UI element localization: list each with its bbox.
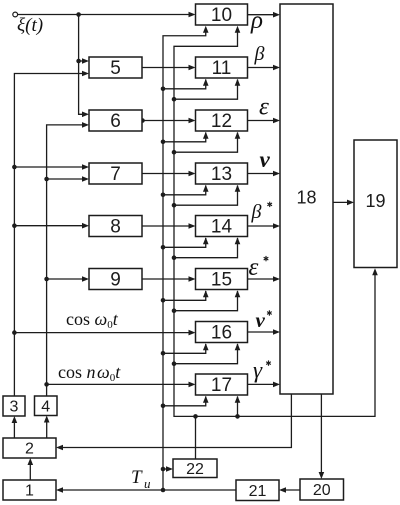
- svg-text:cos n ω0t: cos n ω0t: [58, 362, 121, 384]
- bus2 vertical wire: [174, 29, 375, 417]
- wire block 9 to block 15: [142, 278, 192, 280]
- block 22: [173, 459, 217, 478]
- node bus2 feed block 11: [172, 97, 177, 102]
- wire bus2 into block 13 bottom: [174, 186, 238, 206]
- node bus1 feed block 15: [161, 298, 166, 303]
- svg-text:14: 14: [211, 217, 233, 238]
- svg-text:β: β: [251, 201, 262, 223]
- svg-text:11: 11: [212, 58, 232, 79]
- wire bus1 into block 17 bottom: [163, 397, 206, 406]
- bus1 vertical wire: [163, 29, 206, 490]
- block 5: [89, 57, 142, 79]
- svg-text:19: 19: [365, 191, 385, 211]
- node bus2 feed block 12: [172, 150, 177, 155]
- wire bus2 into block 15 bottom: [174, 291, 238, 311]
- node bus2 feed block 15: [172, 308, 177, 313]
- wire branch into block 7 second input: [47, 178, 86, 180]
- wire branch into block 7 first input: [14, 166, 85, 168]
- svg-text:10: 10: [211, 5, 232, 26]
- wire block 11 output to block 18: [248, 67, 277, 69]
- node bus1 feed block 16: [161, 351, 166, 356]
- wire block 2 to block 3: [13, 420, 15, 439]
- svg-text:и: и: [144, 476, 151, 491]
- block 13: [196, 163, 248, 185]
- svg-text:21: 21: [249, 483, 267, 500]
- node on xi(t) wire: [76, 12, 81, 17]
- svg-text:20: 20: [313, 482, 331, 499]
- wire bus1 into block 22: [163, 468, 170, 470]
- node block22 output joins bus2 line: [193, 414, 198, 419]
- svg-text:8: 8: [110, 217, 121, 238]
- node xi branch to block 5: [76, 59, 81, 64]
- node block4-line cos nw0t: [44, 382, 49, 387]
- wire bus1 into block 16 bottom: [163, 344, 206, 353]
- block 8: [89, 216, 142, 238]
- node block3-line to block 8: [12, 223, 17, 228]
- svg-text:5: 5: [110, 58, 121, 79]
- block 12: [196, 110, 248, 132]
- block 9: [89, 269, 142, 291]
- node bus2 feed block 13: [172, 203, 177, 208]
- block 2: [3, 438, 56, 458]
- node block4-line to block 7: [44, 177, 49, 182]
- node bus1 feed block 14: [161, 245, 166, 250]
- wire block 7 to block 13: [142, 173, 192, 175]
- wire block 18 to block 19: [333, 201, 351, 203]
- wire block 1 to block 2: [29, 462, 31, 481]
- svg-text:ν: ν: [260, 147, 271, 172]
- svg-text:16: 16: [211, 323, 232, 344]
- wire branch into block 5 first input: [79, 60, 86, 62]
- block 15: [196, 269, 248, 291]
- wire block 14 output to block 18: [248, 225, 277, 227]
- node block 6 output: [140, 118, 145, 123]
- block 11: [196, 57, 248, 79]
- svg-text:ξ(t): ξ(t): [17, 15, 43, 36]
- svg-text:ρ: ρ: [250, 7, 263, 34]
- block 6: [89, 110, 142, 132]
- wire block 18 bottom to block 20: [320, 394, 322, 476]
- wire block 18 bottom to block 2: [60, 394, 292, 448]
- block 3: [3, 396, 25, 416]
- node bus1 feed block 11: [161, 87, 166, 92]
- svg-text:6: 6: [110, 111, 121, 132]
- wire cos w0t into block 16: [14, 332, 192, 334]
- svg-text:2: 2: [25, 441, 34, 458]
- wire block 10 output to block 18: [248, 14, 277, 16]
- wire block 20 to block 21: [283, 489, 301, 491]
- node bus1 feed block 17: [161, 404, 166, 409]
- wire block 2 to block 4: [46, 419, 48, 438]
- wire block 5 to block 11: [142, 67, 192, 69]
- node block3-line cos w0t: [12, 330, 17, 335]
- node bus2 feed block 14: [172, 255, 177, 260]
- block 1: [3, 480, 56, 500]
- wire block 21 to block 1 and bus1: [60, 489, 237, 491]
- wire block 13 output to block 18: [248, 173, 277, 175]
- wire bus2 into block 11 bottom: [174, 80, 238, 100]
- wire cos nw0t into block 17: [47, 383, 192, 385]
- svg-text:18: 18: [296, 188, 316, 208]
- node bus1 on block21 wire: [161, 488, 166, 493]
- wire up into block 17 bottom right: [237, 397, 239, 417]
- svg-text:γ: γ: [253, 358, 263, 383]
- input terminal circle: [13, 12, 18, 17]
- block 17: [196, 374, 248, 396]
- node bus1 feed block 13: [161, 193, 166, 198]
- wire block 12 output to block 18: [248, 120, 277, 122]
- svg-text:1: 1: [25, 483, 34, 500]
- wire bus1 into block 15 bottom: [163, 291, 206, 300]
- svg-text:4: 4: [41, 398, 50, 415]
- block 14: [196, 216, 248, 238]
- wire block 15 output to block 18: [248, 278, 277, 280]
- wire block 8 to block 14: [142, 225, 192, 227]
- svg-text:9: 9: [110, 270, 121, 291]
- svg-text:15: 15: [211, 270, 232, 291]
- block 4: [35, 396, 58, 416]
- wire bus1 into block 12 bottom: [163, 133, 206, 142]
- wire bus1 into block 13 bottom: [163, 186, 206, 195]
- wire xi(t) input to block 10: [18, 14, 193, 16]
- wire xi branch down to block 6 input: [79, 15, 86, 115]
- node bus2 line to block 17 bottom: [235, 414, 240, 419]
- svg-text:cos ω0t: cos ω0t: [66, 309, 119, 331]
- svg-text:12: 12: [211, 111, 232, 132]
- svg-text:ε: ε: [259, 93, 269, 120]
- vertical wire from block 4 up: [47, 125, 86, 396]
- wire block 22 output up: [195, 416, 197, 459]
- vertical wire from block 3 up: [14, 74, 85, 397]
- wire block 16 output to block 18: [248, 331, 277, 333]
- block 19: [354, 140, 397, 268]
- wire bus2 into block 16 bottom: [174, 344, 238, 364]
- wire bus1 into block 11 bottom: [163, 80, 206, 89]
- block 20: [300, 479, 344, 500]
- node block4-line to block 9: [44, 277, 49, 282]
- wire bus1 into block 14 bottom: [163, 238, 206, 247]
- svg-text:22: 22: [186, 461, 204, 478]
- wire branch into block 8 input: [14, 225, 85, 227]
- node bus1 to block 22: [161, 467, 166, 472]
- block 16: [196, 322, 248, 344]
- block 7: [89, 163, 142, 185]
- block 10: [196, 4, 248, 26]
- svg-text:T: T: [131, 467, 143, 488]
- svg-text:17: 17: [211, 375, 232, 396]
- svg-text:ε: ε: [249, 254, 259, 281]
- wire bus2 into block 14 bottom: [174, 238, 238, 258]
- block 21: [236, 480, 279, 501]
- svg-text:ν: ν: [256, 308, 266, 332]
- block 18: [280, 4, 333, 394]
- svg-text:β: β: [254, 43, 265, 65]
- svg-text:7: 7: [110, 164, 121, 185]
- wire block 17 output to block 18: [248, 383, 277, 385]
- node bus1 feed block 12: [161, 140, 166, 145]
- wire bus2 into block 12 bottom: [174, 133, 238, 153]
- wire branch into block 9 input: [47, 278, 86, 280]
- svg-text:3: 3: [10, 399, 19, 416]
- node block3-line to block 7: [12, 165, 17, 170]
- svg-text:13: 13: [211, 164, 232, 185]
- node bus2 feed block 16: [172, 361, 177, 366]
- wire block 6 to block 12: [142, 120, 192, 122]
